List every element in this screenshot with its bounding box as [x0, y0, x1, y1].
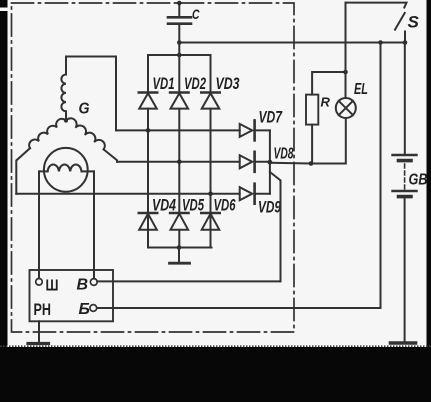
svg-text:GB: GB: [409, 172, 428, 189]
svg-text:VD9: VD9: [258, 198, 281, 217]
svg-text:VD6: VD6: [214, 196, 236, 215]
node: capacitor to frame junction: [177, 1, 182, 6]
wire: phase A line to VD7: [116, 129, 240, 131]
stator phase C coil (left chain): [29, 119, 66, 148]
resistor R: [306, 95, 318, 125]
node: switch-bus junction: [403, 40, 408, 45]
battery GB top lead: [404, 43, 406, 155]
node: R bottom junction: [309, 161, 314, 166]
svg-text:В: В: [77, 277, 89, 294]
diode VD3: [201, 93, 219, 109]
svg-text:VD3: VD3: [216, 74, 240, 93]
battery GB cell 2: [393, 190, 417, 192]
regulator box РН: [30, 270, 114, 321]
wire: middle link bus-topbus: [178, 43, 180, 56]
wire: VD9 out: [255, 193, 270, 195]
capacitor C plates: [168, 17, 191, 23]
terminal Ш circle: [36, 279, 43, 286]
generator G stator phase A top lead: [66, 57, 116, 131]
svg-text:S: S: [408, 13, 420, 32]
rotor field coil: [48, 164, 82, 171]
diode VD4: [139, 109, 157, 230]
node: Б riser junction: [378, 40, 383, 45]
diode VD6: [201, 213, 219, 230]
wire: rotor coil end links: [39, 170, 94, 172]
wire: phase B line to VD8: [117, 161, 240, 163]
scan artifact: left black strip: [0, 0, 8, 402]
wire: switch bottom lead: [404, 32, 406, 43]
wire: lamp feed vertical from switch wire: [345, 3, 347, 98]
battery GB dashed link: [404, 164, 406, 190]
wire: regulator ground stem: [38, 321, 40, 342]
lamp EL cross: [339, 101, 353, 115]
node: top bus at middle rail: [177, 53, 182, 58]
terminal В circle: [90, 279, 97, 286]
wire: rail 3: [210, 55, 212, 248]
wire: brush lead to Ш: [38, 171, 40, 278]
wire: phase B elbow: [104, 149, 117, 161]
capacitor C top lead to frame: [178, 3, 180, 16]
node: phase A tap rail 1: [146, 128, 151, 133]
node: phase C tap rail 3: [208, 191, 213, 196]
diode VD2: [170, 93, 188, 109]
wire: VD7 out: [255, 129, 270, 131]
wire: brush lead to В: [93, 171, 95, 278]
node: phase B tap rail 2: [177, 160, 182, 165]
capacitor C bottom lead: [178, 25, 180, 43]
node: bus at capacitor rail: [177, 40, 182, 45]
svg-text:Ш: Ш: [46, 278, 59, 295]
lamp EL circle: [336, 98, 356, 118]
node: star point: [64, 119, 68, 123]
scan artifact: right black strip: [427, 0, 431, 402]
wire: bottom bus: [148, 247, 212, 249]
battery GB bottom lead: [404, 197, 406, 342]
terminal Б circle: [90, 305, 97, 312]
wire: phase C elbow: [16, 148, 30, 194]
svg-text:R: R: [321, 95, 331, 110]
svg-text:VD4: VD4: [152, 196, 176, 215]
diode VD9: [240, 184, 255, 204]
wire: VD8 out: [255, 161, 270, 163]
wire: В feed line: [97, 280, 280, 282]
wire: phase C line to VD9: [16, 193, 239, 195]
svg-text:VD8: VD8: [274, 146, 294, 163]
wire: lamp bottom lead: [345, 118, 347, 164]
diode VD1: [139, 93, 157, 109]
enclosure dash-dot frame: [12, 3, 295, 332]
wire: D+ line to lamp: [270, 162, 346, 165]
node: trio output junction: [268, 160, 273, 165]
wire: diagonal to regulator riser: [270, 172, 281, 281]
rotor circle: [44, 148, 88, 192]
svg-text:VD5: VD5: [182, 196, 204, 215]
wire: top switch wire: [346, 3, 407, 8]
switch S blade: [395, 13, 405, 30]
wire: rectifier top bus: [148, 54, 211, 56]
svg-text:VD2: VD2: [184, 74, 206, 93]
wire: rail 2: [178, 55, 180, 248]
stator phase B coil (right chain): [66, 118, 105, 149]
ground (battery): [391, 341, 416, 345]
svg-text:РН: РН: [34, 300, 52, 319]
diode VD8: [240, 152, 255, 172]
battery GB cell 1: [393, 154, 417, 156]
wire: trio cathode vertical: [269, 130, 271, 193]
diode VD7: [240, 120, 255, 140]
node: bottom bus center: [177, 245, 182, 250]
scan artifact: bottom black region: [0, 347, 431, 402]
svg-text:C: C: [192, 7, 200, 22]
wire: main B+ bus: [179, 42, 405, 44]
svg-text:VD7: VD7: [259, 108, 284, 127]
wire: R top branch: [312, 72, 345, 95]
diode VD5: [170, 213, 188, 230]
svg-text:VD1: VD1: [153, 74, 175, 93]
wire: R bottom lead: [311, 125, 313, 164]
ground (rectifier): [170, 262, 190, 265]
wire: rail 1: [147, 55, 149, 248]
wire: Б riser: [97, 43, 381, 309]
node: lamp branch junction: [343, 70, 348, 75]
svg-text:G: G: [79, 101, 90, 118]
ground (regulator): [28, 342, 49, 345]
svg-text:Б: Б: [79, 301, 90, 318]
wire: ground stem: [178, 248, 180, 263]
stator phase A coil: [61, 75, 66, 121]
svg-text:EL: EL: [354, 81, 368, 98]
